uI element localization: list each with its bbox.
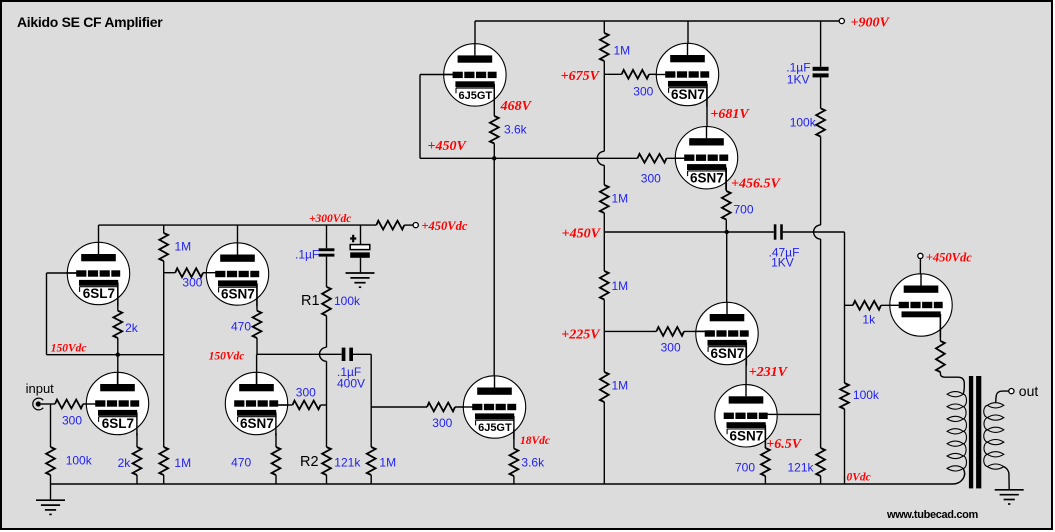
svg-text:+450Vdc: +450Vdc	[926, 250, 972, 264]
resistor 1M (divider top)	[600, 33, 609, 61]
terminal +450Vdc (left)	[413, 223, 418, 228]
ground (electrolytic)	[346, 273, 375, 287]
svg-text:300: 300	[633, 84, 653, 98]
svg-text:+450Vdc: +450Vdc	[421, 219, 467, 233]
svg-text:1KV: 1KV	[771, 255, 794, 269]
svg-text:100k: 100k	[66, 453, 93, 467]
wire 3.6k to node	[493, 144, 495, 159]
capacitor .1uF (R1 feed)	[319, 248, 335, 251]
triode T8 6J5GT (bottom)	[462, 376, 525, 439]
wire down to T10 grid node	[820, 239, 822, 448]
svg-text:input: input	[26, 381, 55, 396]
wire +225V node to 300	[604, 330, 656, 332]
wire to R2	[326, 361, 328, 447]
wire to T8 grid 300	[371, 406, 427, 408]
resistor 121k (T10 grid leak)	[816, 448, 825, 476]
wire T4 cathode lead	[117, 283, 119, 311]
resistor R1 100k	[322, 287, 331, 316]
wire T1 grid lead	[420, 74, 454, 76]
resistor 700 (T3 cathode)	[722, 191, 731, 220]
wire ground rail 0V	[51, 483, 953, 485]
junction node +450V/468V	[492, 156, 496, 160]
wire 300 to T9 grid	[684, 330, 705, 332]
svg-text:6J5GT: 6J5GT	[458, 90, 492, 102]
wire cap out	[353, 353, 371, 355]
wire 121k to ground rail	[820, 476, 822, 484]
resistor 2k (T6 cathode)	[133, 447, 142, 475]
wire 2k to ground rail	[136, 475, 138, 484]
wire T7 cathode lead	[275, 433, 277, 447]
wire T7 grid lead (right)	[279, 404, 293, 406]
wire 700 to +450V node	[725, 220, 727, 233]
svg-text:3.6k: 3.6k	[504, 122, 528, 136]
resistor 300 (T5 grid)	[175, 268, 203, 277]
junction +450V/700/T9 plate	[725, 230, 729, 234]
triode T10 6SN7	[715, 385, 778, 448]
wire node to 1k	[845, 304, 853, 306]
wire T10 cathode lead	[764, 427, 766, 448]
input jack	[33, 398, 43, 410]
wire cap out down to 1M	[370, 354, 372, 447]
svg-text:121k: 121k	[788, 460, 815, 474]
svg-text:700: 700	[734, 202, 754, 216]
svg-text:+681V: +681V	[710, 107, 750, 122]
svg-text:150Vdc: 150Vdc	[209, 350, 245, 362]
svg-text:6SN7: 6SN7	[730, 428, 764, 443]
resistor 1M (left divider top)	[159, 233, 168, 261]
resistor 100k (to 0Vdc)	[840, 383, 849, 409]
resistor 1M (T8 grid leak)	[367, 447, 376, 475]
terminal out	[1009, 389, 1014, 394]
wire T5 cathode lead	[256, 284, 258, 311]
wire T7 plate lead	[256, 354, 258, 385]
svg-text:1M: 1M	[175, 239, 192, 253]
resistor 3.6k (T1 cathode)	[490, 116, 499, 144]
svg-text:6SL7: 6SL7	[83, 286, 115, 301]
wire 300 to T6 grid	[83, 403, 96, 405]
wire 470 to ground rail	[275, 475, 277, 484]
svg-text:+225V: +225V	[561, 328, 601, 343]
capacitor electrolytic (+)	[350, 235, 370, 258]
ground (input)	[36, 500, 65, 514]
svg-text:+231V: +231V	[749, 365, 789, 380]
svg-text:1k: 1k	[862, 313, 876, 327]
resistor (rail dropping, unlabeled)	[376, 221, 404, 230]
wire 1M to ground rail	[163, 475, 165, 484]
svg-text:2k: 2k	[125, 321, 139, 335]
resistor 300 (input grid stop)	[55, 400, 83, 409]
wire rail seg	[603, 213, 605, 271]
wire cap out to corner	[783, 231, 845, 233]
svg-text:+900V: +900V	[851, 16, 891, 31]
svg-text:300: 300	[661, 340, 681, 354]
wire 300 to T3 grid	[667, 157, 685, 159]
resistor 1M (divider 3)	[600, 271, 609, 300]
resistor 2k (T4 cathode)	[113, 311, 122, 338]
svg-text:300: 300	[62, 414, 82, 428]
wire T10 grid lead	[778, 413, 821, 415]
wire rail seg	[603, 61, 605, 151]
wire T2 cathode to T3 plate	[706, 84, 708, 141]
triode T3 6SN7	[674, 127, 737, 190]
wire hop over y=158	[597, 151, 604, 165]
wire cap to 100k	[820, 77, 822, 108]
resistor 1M (divider 2)	[600, 185, 609, 213]
svg-text:1M: 1M	[614, 43, 631, 57]
wire 1M to ground rail	[370, 475, 372, 484]
resistor 3.6k (T8 cathode)	[510, 449, 519, 476]
svg-text:1M: 1M	[612, 378, 629, 392]
svg-text:+456.5V: +456.5V	[731, 176, 781, 191]
svg-text:3.6k: 3.6k	[521, 456, 545, 470]
wire divider to 300	[164, 272, 176, 274]
wire +900V to .1uF cap	[820, 21, 822, 67]
wire grid return x=46.5	[46, 273, 48, 355]
wire T1 plate lead	[474, 21, 476, 58]
svg-text:300: 300	[296, 385, 316, 399]
resistor 300 (T8 grid)	[427, 403, 455, 412]
svg-text:6J5GT: 6J5GT	[478, 422, 512, 434]
wire 100k to ground rail	[50, 475, 52, 484]
wire T1 cathode lead	[493, 84, 495, 116]
resistor 300 (T7 grid)	[293, 401, 321, 410]
ground (output)	[995, 490, 1024, 504]
wire 100k down	[820, 137, 822, 226]
resistor 100k (input)	[46, 447, 55, 475]
triode T11 (output, unlabeled)	[889, 274, 952, 337]
resistor 1M (left divider bottom)	[159, 447, 168, 475]
wire 470 to 150V node 2	[256, 338, 258, 354]
svg-text:150Vdc: 150Vdc	[51, 343, 87, 355]
triode T1 6J5GT (top)	[443, 44, 506, 107]
wire T4 plate lead	[98, 225, 100, 258]
wire T4 grid lead	[47, 272, 77, 274]
wire 2k to 150V node	[117, 338, 119, 355]
svg-text:Aikido SE CF Amplifier: Aikido SE CF Amplifier	[17, 14, 163, 30]
svg-text:+300Vdc: +300Vdc	[309, 213, 351, 225]
svg-text:0Vdc: 0Vdc	[847, 472, 871, 484]
wire 300 to T8 grid	[455, 406, 472, 408]
transformer core	[969, 376, 973, 488]
wire 300 to T5 grid	[203, 272, 215, 274]
svg-text:300: 300	[182, 275, 202, 289]
svg-text:1M: 1M	[612, 279, 629, 293]
resistor 470 (T7 cathode)	[272, 447, 281, 475]
wire input to 100k	[50, 404, 52, 447]
svg-text:6SN7: 6SN7	[671, 87, 705, 102]
svg-text:6SL7: 6SL7	[102, 416, 134, 431]
svg-text:468V: 468V	[500, 99, 533, 114]
wire R2 to ground rail	[326, 475, 328, 484]
svg-text:www.tubecad.com: www.tubecad.com	[886, 509, 978, 521]
wire 300 to R1R2 node	[321, 404, 327, 406]
terminal +450Vdc (right)	[918, 253, 923, 258]
triode T2 6SN7	[655, 43, 718, 106]
svg-text:R1: R1	[301, 293, 320, 309]
wire T9 cathode to T10 plate	[745, 343, 747, 397]
resistor R2 121k	[322, 447, 331, 475]
svg-text:100k: 100k	[334, 294, 361, 308]
wire rail seg to ground rail	[603, 402, 605, 484]
wire T6 plate lead	[117, 355, 119, 385]
triode T6 6SL7	[85, 372, 148, 435]
wire 700 to ground rail	[764, 476, 766, 484]
wire vertical x=844.5	[844, 232, 846, 383]
svg-text:300: 300	[641, 171, 661, 185]
capacitor .1uF 400V	[342, 348, 346, 361]
wire T2 plate lead	[687, 21, 689, 58]
svg-text:6SN7: 6SN7	[711, 346, 745, 361]
resistor 100k (bias feed)	[816, 108, 825, 136]
wire rail to electrolytic	[360, 225, 362, 245]
svg-text:100k: 100k	[790, 116, 817, 130]
svg-text:300: 300	[432, 416, 452, 430]
wire rail seg	[603, 165, 605, 185]
wire T8 plate lead vertical	[493, 158, 495, 389]
wire hop over 150V wire	[320, 347, 327, 361]
wire rail to input ground	[50, 484, 52, 500]
wire +675V node to 300	[604, 73, 621, 75]
svg-text:1M: 1M	[174, 456, 191, 470]
junction 150V node	[116, 353, 120, 357]
capacitor .47uF 1KV	[774, 224, 777, 239]
resistor T11 cathode (unlabeled)	[936, 341, 945, 372]
svg-text:700: 700	[735, 460, 755, 474]
svg-text:+450V: +450V	[427, 139, 467, 154]
resistor 1M (divider 4)	[600, 372, 609, 402]
svg-text:.1µF: .1µF	[295, 248, 319, 262]
resistor 470 (T5 cathode)	[253, 311, 262, 338]
resistor 300 (T2 grid)	[622, 70, 649, 79]
wire rail to .1uF cap	[326, 225, 328, 248]
wire mid divider rail x=604	[603, 21, 605, 33]
wire rail to 1M	[163, 225, 165, 233]
resistor 700 (T10 cathode)	[761, 448, 770, 476]
wire 3.6k to ground rail	[513, 476, 515, 484]
wire y=158 node to T3 grid	[420, 157, 638, 159]
svg-text:1M: 1M	[612, 191, 629, 205]
triode T9 6SN7	[695, 302, 758, 365]
wire grid return vertical x=420	[419, 75, 421, 159]
svg-text:100k: 100k	[853, 388, 880, 402]
transformer primary winding	[940, 372, 964, 394]
resistor 300 (T9 grid)	[656, 327, 684, 336]
svg-text:6SN7: 6SN7	[240, 416, 274, 431]
wire T6 cathode lead	[136, 433, 138, 447]
capacitor .1uF 1KV	[813, 67, 829, 71]
svg-text:+6.5V: +6.5V	[766, 437, 802, 452]
wire 100k to ground rail	[844, 409, 846, 484]
wire T8 cathode lead	[513, 429, 515, 449]
wire T3 cathode lead	[725, 168, 727, 191]
wire T11 cathode lead	[939, 314, 941, 341]
triode T5 6SN7	[205, 243, 268, 306]
transformer secondary winding	[987, 403, 1003, 408]
wire to +450Vdc terminal	[404, 224, 413, 226]
wire +300Vdc rail	[99, 224, 377, 226]
triode T4 6SL7	[66, 242, 129, 305]
svg-text:470: 470	[231, 455, 251, 469]
resistor 300 (T3 grid)	[638, 154, 667, 163]
wire cap to R1	[326, 257, 328, 287]
svg-text:out: out	[1019, 383, 1039, 399]
svg-text:6SN7: 6SN7	[221, 287, 255, 302]
wire rail seg	[603, 300, 605, 373]
wire T9 plate lead	[726, 232, 728, 315]
svg-text:400V: 400V	[337, 376, 365, 390]
svg-text:1M: 1M	[379, 456, 396, 470]
svg-text:6SN7: 6SN7	[690, 170, 724, 185]
svg-text:470: 470	[231, 320, 251, 334]
terminal +900V	[839, 18, 844, 23]
wire 150V node2 to coupling cap	[257, 353, 342, 355]
svg-text:2k: 2k	[118, 456, 132, 470]
svg-text:+675V: +675V	[561, 69, 601, 84]
wire top B+ rail to +900V	[475, 20, 839, 22]
resistor 1k (T11 grid)	[853, 301, 881, 310]
wire R1 down	[326, 316, 328, 348]
wire T11 plate lead	[919, 258, 921, 287]
triode T7 6SN7	[225, 372, 288, 435]
wire 150V node	[47, 354, 164, 356]
wire electrolytic to ground	[360, 258, 362, 273]
svg-text:121k: 121k	[334, 456, 361, 470]
wire left divider rail	[163, 261, 165, 447]
wire +450V node	[604, 231, 774, 233]
wire T5 plate lead	[237, 225, 239, 258]
wire input to 300	[41, 403, 55, 405]
wire 300 to T2 grid	[649, 73, 666, 75]
svg-text:+450V: +450V	[562, 226, 602, 241]
svg-text:1KV: 1KV	[787, 72, 810, 86]
svg-text:R2: R2	[300, 454, 319, 470]
wire 1k to T11 grid	[881, 304, 899, 306]
svg-text:18Vdc: 18Vdc	[520, 435, 550, 447]
wire hop over +450V wire	[814, 225, 821, 239]
